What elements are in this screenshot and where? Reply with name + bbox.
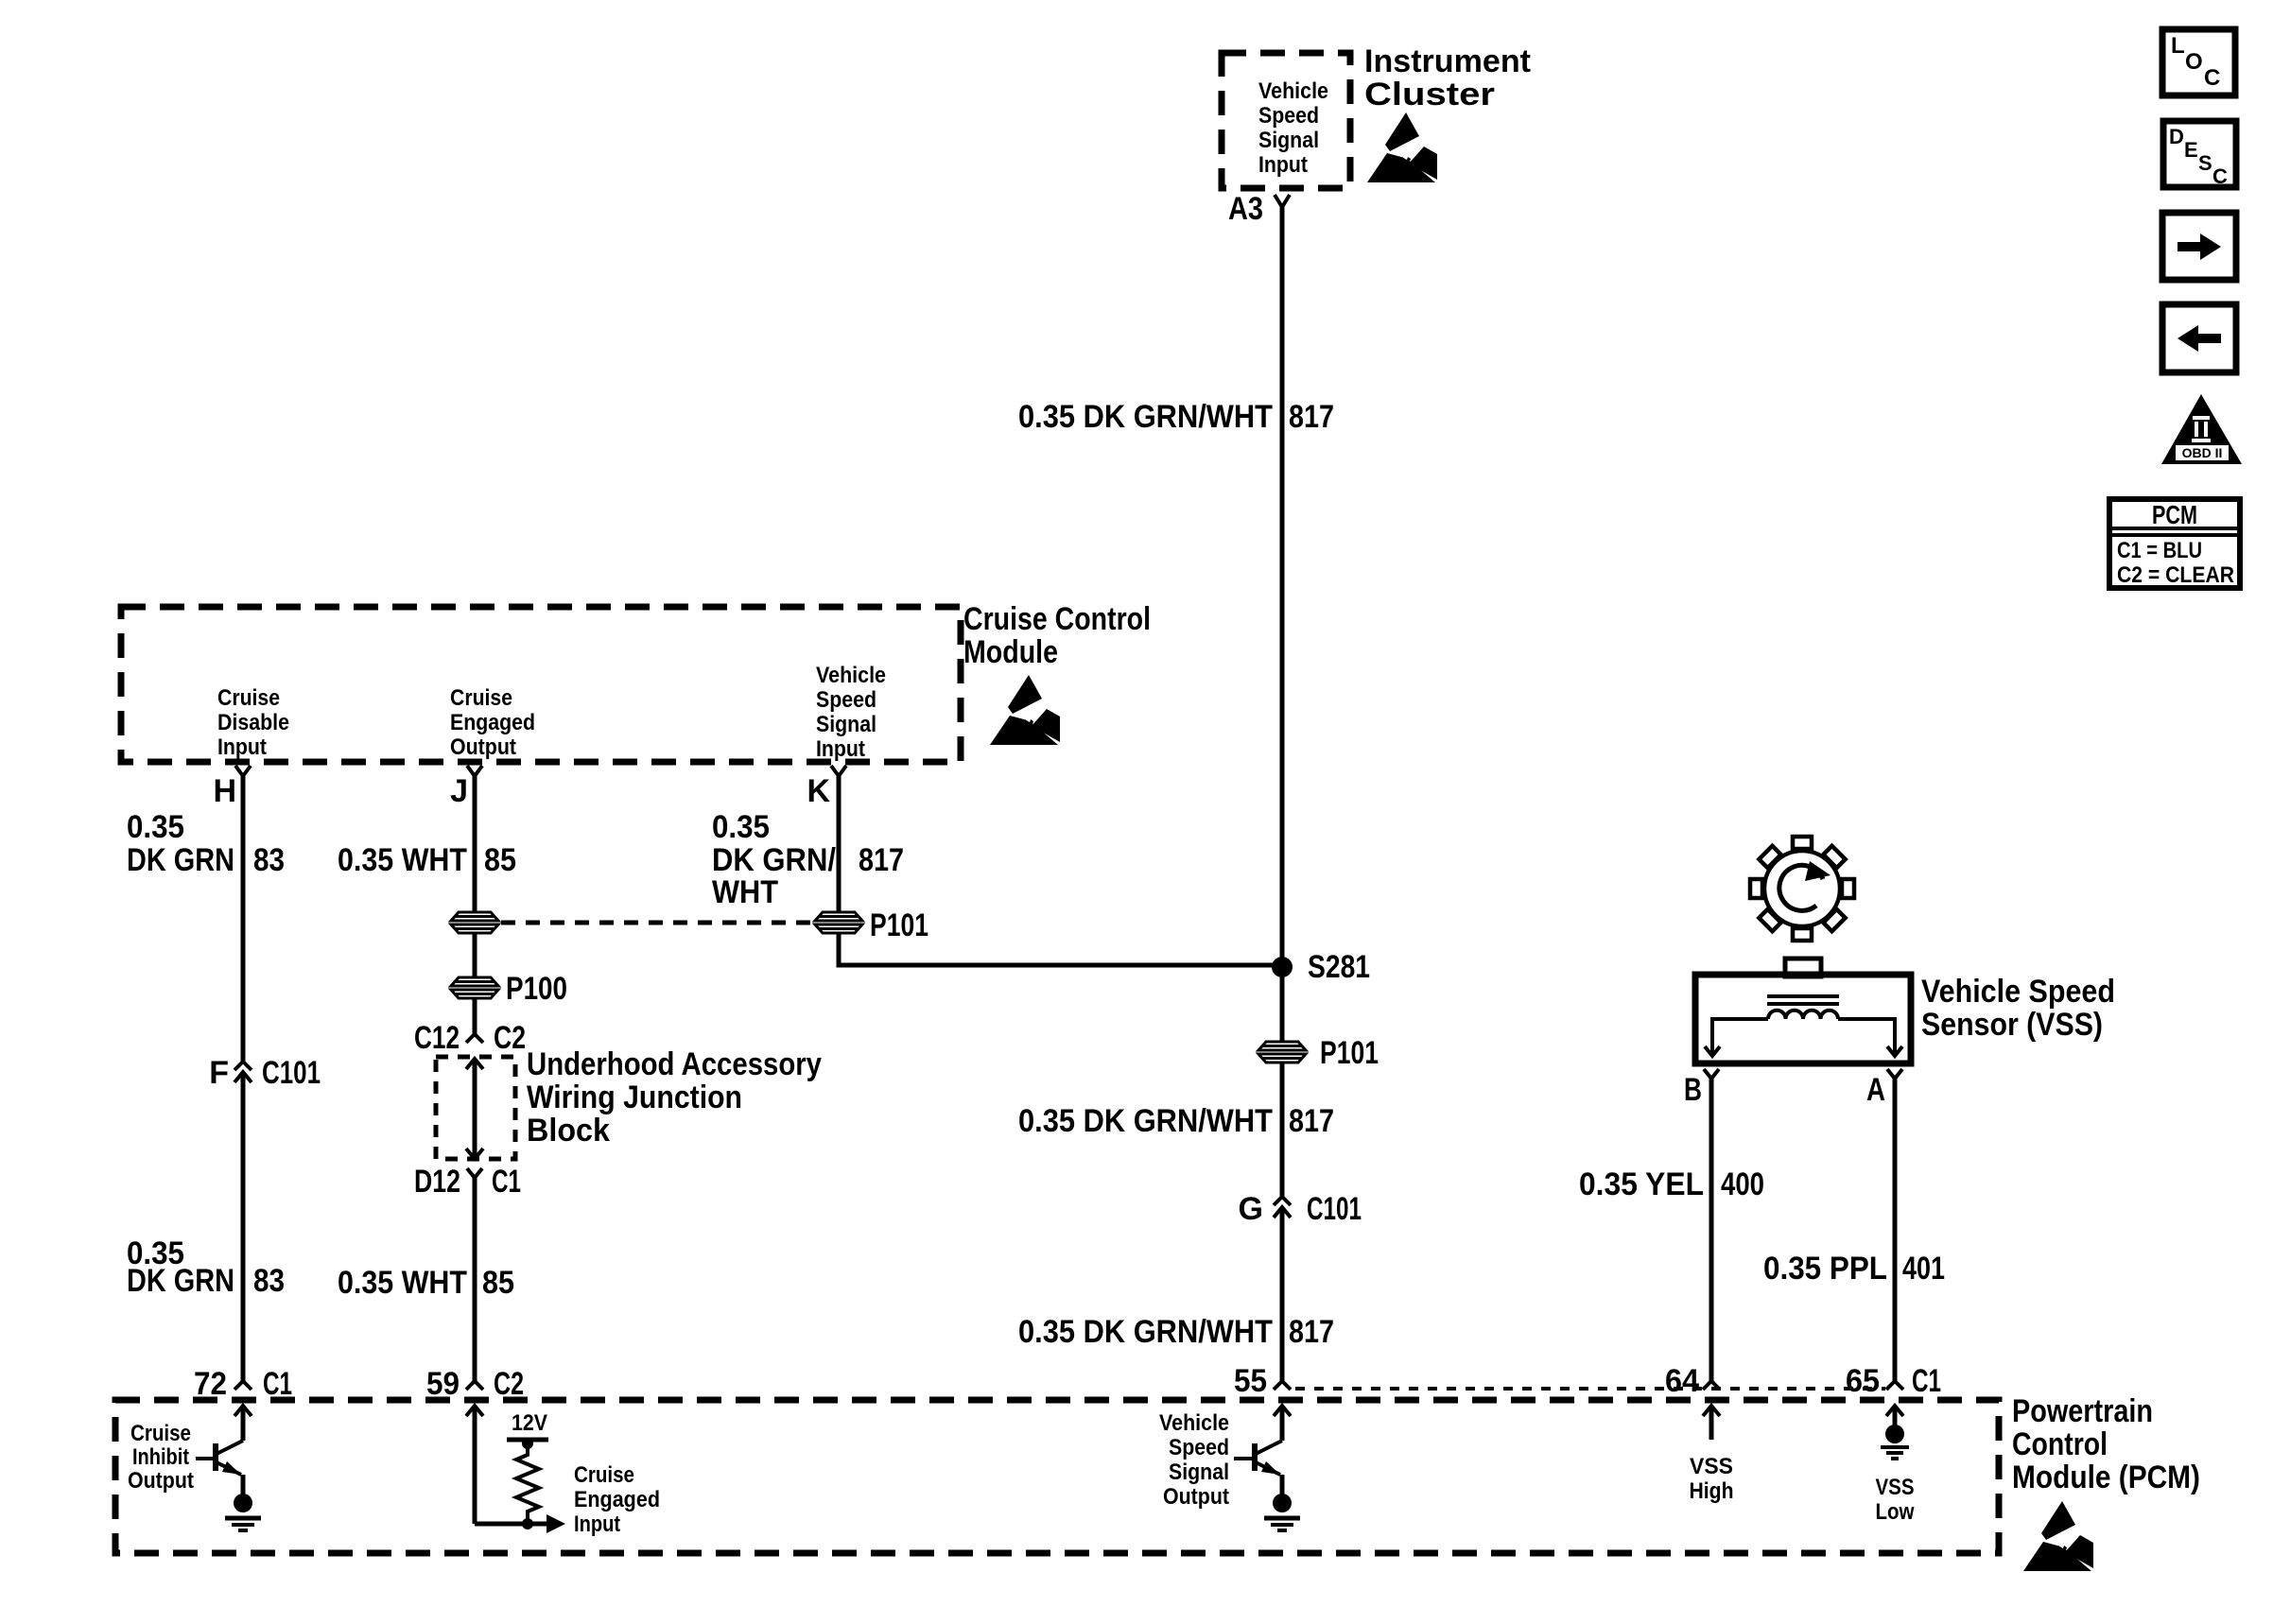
svg-text:OBD II: OBD II	[2182, 445, 2223, 460]
svg-text:83: 83	[253, 842, 285, 878]
wire from Q2 emitter to ground	[1280, 1475, 1285, 1495]
wire label 0.35 DK GRN/WHT 817 (middle)	[1018, 1103, 1334, 1139]
transistor Q1 Cruise Inhibit Output	[128, 1421, 243, 1494]
svg-text:85: 85	[482, 1265, 514, 1301]
underhood accessory wiring junction block box	[436, 1057, 515, 1159]
pin function label: Cruise Disable Input	[217, 685, 289, 760]
svg-text:Input: Input	[217, 734, 267, 760]
svg-text:85: 85	[484, 842, 516, 878]
pin 64 female connector symbol	[1703, 1381, 1720, 1390]
svg-text:Instrument: Instrument	[1364, 43, 1531, 79]
svg-text:P101: P101	[870, 907, 928, 943]
svg-text:Module: Module	[963, 634, 1058, 670]
svg-text:0.35 DK GRN/WHT: 0.35 DK GRN/WHT	[1018, 1103, 1273, 1139]
svg-text:C101: C101	[262, 1055, 321, 1091]
sidebar PCM connector legend	[2109, 499, 2240, 588]
ESD warning symbol (instrument cluster)	[1367, 112, 1437, 182]
svg-text:0.35 DK GRN/WHT: 0.35 DK GRN/WHT	[1018, 1314, 1273, 1350]
pin B female connector symbol	[1704, 1069, 1719, 1079]
svg-text:C1: C1	[263, 1366, 292, 1402]
svg-text:817: 817	[1289, 399, 1334, 435]
svg-text:Signal: Signal	[816, 712, 876, 737]
svg-text:Signal: Signal	[1258, 128, 1319, 153]
svg-text:WHT: WHT	[712, 874, 778, 910]
svg-text:Cruise: Cruise	[130, 1421, 191, 1446]
in-line connector G / C101 on wire 817	[1239, 1191, 1362, 1227]
svg-text:K: K	[807, 773, 830, 809]
svg-text:A3: A3	[1228, 191, 1263, 227]
svg-text:P100: P100	[506, 971, 567, 1007]
svg-text:Cruise Control: Cruise Control	[963, 601, 1151, 637]
VSS pickup coil winding	[1768, 1011, 1838, 1019]
wire 85: cruise module J down to P101	[473, 776, 477, 913]
svg-text:Vehicle: Vehicle	[1159, 1410, 1229, 1436]
svg-text:High: High	[1690, 1478, 1734, 1504]
pin 72 male arrow into PCM	[234, 1406, 252, 1441]
svg-text:12V: 12V	[512, 1410, 547, 1436]
wire 817: K branch down then right to splice S281	[839, 933, 1282, 965]
svg-text:P101: P101	[1320, 1035, 1379, 1071]
wire label 0.35 WHT 85 (lower)	[338, 1265, 514, 1301]
pin H female connector symbol	[235, 766, 251, 776]
PCM name label	[2012, 1393, 2200, 1495]
svg-text:Output: Output	[450, 734, 516, 760]
wire 85: junction block down to PCM pin 59	[473, 1178, 477, 1381]
svg-text:Vehicle Speed: Vehicle Speed	[1921, 974, 2115, 1010]
svg-text:400: 400	[1721, 1166, 1764, 1202]
wire 817: C101 down to PCM pin 55	[1280, 1207, 1285, 1381]
wire 401: VSS A down to PCM pin 65	[1893, 1079, 1898, 1381]
ground (VSS Low)	[1881, 1425, 1909, 1459]
cruise control module box	[121, 607, 961, 762]
in-line connector F / C101 on wire 83	[209, 1055, 321, 1091]
vehicle speed sensor (VSS) box	[1695, 975, 1911, 1063]
instrument cluster pin function label: Vehicle Speed Signal Input	[1258, 78, 1328, 178]
svg-text:Input: Input	[816, 736, 865, 762]
svg-text:817: 817	[1289, 1314, 1334, 1350]
svg-text:H: H	[213, 773, 236, 809]
svg-text:Cruise: Cruise	[217, 685, 280, 711]
junction D12 / C1 labels and connector symbol	[414, 1164, 521, 1200]
svg-text:C2: C2	[494, 1020, 526, 1056]
svg-text:C1: C1	[1912, 1363, 1941, 1399]
svg-text:VSS: VSS	[1876, 1475, 1915, 1500]
svg-text:Cruise: Cruise	[450, 685, 512, 711]
junction C12 / C2 labels and connector symbol	[414, 1020, 526, 1056]
svg-text:Output: Output	[128, 1468, 194, 1494]
svg-text:O: O	[2185, 49, 2203, 75]
svg-text:D12: D12	[414, 1164, 460, 1200]
cruise engaged input arrow head	[547, 1514, 565, 1533]
wire 817: between P101 and C101	[1280, 1063, 1285, 1197]
svg-text:55: 55	[1234, 1363, 1267, 1399]
svg-text:J: J	[450, 773, 468, 809]
sidebar DESC icon	[2163, 121, 2236, 188]
svg-text:E: E	[2184, 138, 2198, 162]
svg-text:PCM: PCM	[2152, 500, 2197, 529]
pin 72 labels	[194, 1366, 292, 1402]
svg-text:0.35 WHT: 0.35 WHT	[338, 1265, 467, 1301]
svg-text:C: C	[2212, 164, 2228, 188]
svg-text:Wiring Junction: Wiring Junction	[527, 1080, 742, 1115]
pin function label: Vehicle Speed Signal Input	[816, 663, 886, 762]
ground (Q1 emitter)	[225, 1494, 261, 1530]
wire label 0.35 PPL 401	[1763, 1251, 1945, 1287]
pin 59 labels	[426, 1366, 524, 1402]
svg-text:Vehicle: Vehicle	[816, 663, 886, 688]
svg-text:DK GRN: DK GRN	[127, 842, 234, 878]
pin 55 female connector symbol	[1274, 1381, 1291, 1390]
wire 85: P101 to P100	[473, 933, 477, 978]
svg-text:817: 817	[859, 842, 904, 878]
VSS High input label	[1690, 1454, 1734, 1504]
svg-text:Input: Input	[574, 1512, 620, 1537]
vehicle speed sensor top tab	[1785, 959, 1821, 976]
pin J female connector symbol	[467, 766, 482, 776]
pin A female connector symbol	[1887, 1069, 1902, 1079]
ESD warning symbol (PCM)	[2023, 1501, 2093, 1571]
svg-text:Cruise: Cruise	[574, 1462, 634, 1488]
sidebar LOC icon	[2162, 29, 2235, 95]
VSS internal leads with arrows to pins	[1705, 1019, 1902, 1056]
pin 64 male arrow into PCM (VSS High input)	[1703, 1406, 1720, 1440]
svg-text:D: D	[2169, 125, 2184, 148]
svg-text:Signal: Signal	[1169, 1460, 1229, 1485]
svg-text:Underhood Accessory: Underhood Accessory	[527, 1046, 822, 1082]
svg-text:72: 72	[194, 1366, 227, 1402]
pin 72 female connector symbol	[234, 1381, 252, 1390]
svg-text:Disable: Disable	[217, 710, 289, 735]
wire 400: VSS B down to PCM pin 64	[1709, 1079, 1714, 1381]
12V supply rail bar	[507, 1438, 548, 1443]
pin 55 male arrow into PCM	[1274, 1406, 1291, 1441]
svg-text:C1: C1	[492, 1164, 521, 1200]
pin A3 female connector symbol	[1275, 195, 1290, 207]
svg-text:S281: S281	[1308, 949, 1370, 985]
powertrain control module (PCM) box	[115, 1400, 1999, 1553]
instrument cluster module box	[1222, 53, 1350, 188]
splice S281 junction dot	[1272, 957, 1293, 977]
pin 59 female connector symbol	[466, 1381, 483, 1390]
svg-text:Input: Input	[1258, 152, 1308, 178]
svg-text:0.35 PPL: 0.35 PPL	[1763, 1251, 1887, 1287]
wire label 0.35 DK GRN/WHT 817 (upper)	[1018, 399, 1334, 435]
connector P101 grommet symbol on wire K	[814, 912, 863, 933]
svg-text:Sensor (VSS): Sensor (VSS)	[1921, 1007, 2103, 1043]
svg-text:Control: Control	[2012, 1426, 2108, 1462]
svg-text:DK GRN: DK GRN	[127, 1263, 234, 1299]
wire through junction block with arrows	[466, 1059, 483, 1159]
instrument cluster name label	[1364, 43, 1531, 112]
wire from pin 59 to cruise engaged input arrow	[475, 1522, 547, 1527]
svg-text:C: C	[2204, 65, 2220, 91]
wire 817: cruise module K down to P101	[837, 776, 842, 913]
resistor R (cruise engaged pull-up)	[516, 1440, 539, 1524]
wire 85: P100 down to junction block pin C12	[473, 998, 477, 1034]
svg-text:A: A	[1866, 1072, 1885, 1108]
svg-text:Low: Low	[1876, 1499, 1915, 1525]
svg-text:64: 64	[1665, 1363, 1699, 1399]
svg-text:L: L	[2171, 33, 2185, 59]
sidebar back arrow icon	[2162, 304, 2236, 372]
svg-text:817: 817	[1289, 1103, 1334, 1139]
VSS Low label	[1876, 1475, 1915, 1525]
wire label 0.35 DK GRN/WHT 817 (lower)	[1018, 1314, 1334, 1350]
wire 817: instrument cluster A3 down to PCM pin 55 (upper segment)	[1280, 207, 1285, 1044]
svg-text:Speed: Speed	[1169, 1435, 1229, 1460]
connector P100 grommet symbol on wire 85	[450, 977, 499, 998]
pin K female connector symbol	[831, 766, 846, 776]
svg-text:C1 = BLU: C1 = BLU	[2117, 538, 2202, 563]
cruise engaged input label	[574, 1462, 660, 1537]
svg-text:Cluster: Cluster	[1364, 77, 1495, 112]
pin 65 labels	[1846, 1363, 1941, 1399]
svg-text:Engaged: Engaged	[574, 1487, 660, 1512]
svg-text:0.35 WHT: 0.35 WHT	[338, 842, 467, 878]
dashed connector alignment line P101	[501, 921, 813, 925]
PCM connector fine dashed line pin 55 to pin 65	[1295, 1387, 1885, 1391]
svg-text:Speed: Speed	[816, 687, 876, 713]
wire 83: C101 down to PCM pin 72	[241, 1072, 246, 1381]
svg-text:Output: Output	[1163, 1484, 1229, 1510]
wire label 0.35 DK GRN 83 (lower)	[127, 1235, 285, 1299]
svg-text:0.35: 0.35	[712, 809, 770, 845]
svg-text:VSS: VSS	[1690, 1454, 1733, 1479]
svg-text:G: G	[1239, 1191, 1263, 1227]
wire label 0.35 WHT 85 (upper)	[338, 842, 516, 878]
svg-text:401: 401	[1902, 1251, 1945, 1287]
svg-text:Block: Block	[527, 1113, 610, 1149]
wire label 0.35 DK GRN 83 (upper)	[127, 809, 285, 878]
ground (Q2 emitter)	[1264, 1494, 1300, 1530]
svg-text:Speed: Speed	[1258, 103, 1319, 129]
svg-text:F: F	[209, 1055, 229, 1091]
wire label 0.35 YEL 400	[1579, 1166, 1764, 1202]
pin function label: Cruise Engaged Output	[450, 685, 535, 760]
connector P101 grommet symbol on wire 85	[450, 912, 499, 933]
wire 83: cruise module H down to C101	[241, 776, 246, 1062]
vehicle speed sensor reluctor gear icon	[1750, 837, 1854, 941]
svg-text:C2 = CLEAR: C2 = CLEAR	[2117, 562, 2234, 588]
svg-text:S: S	[2198, 151, 2212, 175]
svg-text:0.35: 0.35	[127, 809, 184, 845]
svg-text:83: 83	[253, 1263, 285, 1299]
junction dot below 12V bar	[522, 1438, 533, 1449]
wire label 0.35 DK GRN/ WHT 817 (K branch)	[712, 809, 904, 910]
sidebar OBD II icon	[2161, 394, 2242, 464]
svg-text:0.35 YEL: 0.35 YEL	[1579, 1166, 1704, 1202]
transistor Q2 Vehicle Speed Signal Output	[1159, 1410, 1282, 1510]
svg-text:Inhibit: Inhibit	[132, 1444, 189, 1470]
svg-text:C12: C12	[414, 1020, 460, 1056]
svg-text:59: 59	[426, 1366, 460, 1402]
svg-text:B: B	[1684, 1072, 1702, 1108]
svg-text:DK GRN/: DK GRN/	[712, 842, 836, 878]
pin 65 male arrow into PCM (VSS Low, grounded)	[1886, 1406, 1903, 1425]
pin 59 male arrow into PCM	[466, 1406, 483, 1524]
junction dot at resistor bottom	[522, 1518, 533, 1529]
svg-text:Powertrain: Powertrain	[2012, 1393, 2153, 1429]
svg-text:C101: C101	[1307, 1191, 1362, 1227]
svg-text:Engaged: Engaged	[450, 710, 535, 735]
ESD warning symbol (cruise control module)	[990, 675, 1060, 745]
VSS pickup coil core lines	[1767, 996, 1839, 1004]
svg-text:65: 65	[1846, 1363, 1880, 1399]
svg-text:C2: C2	[494, 1366, 524, 1402]
wire from Q1 emitter to ground	[241, 1475, 246, 1495]
cruise control module name label	[963, 601, 1151, 670]
pin 65 female connector symbol	[1886, 1381, 1903, 1390]
junction block name label	[527, 1046, 822, 1149]
svg-text:Vehicle: Vehicle	[1258, 78, 1328, 104]
VSS name label	[1921, 974, 2115, 1043]
svg-text:0.35 DK GRN/WHT: 0.35 DK GRN/WHT	[1018, 399, 1273, 435]
svg-text:Module (PCM): Module (PCM)	[2012, 1460, 2200, 1495]
sidebar forward arrow icon	[2162, 213, 2236, 280]
connector P101 (main wire) grommet symbol	[1258, 1042, 1307, 1063]
